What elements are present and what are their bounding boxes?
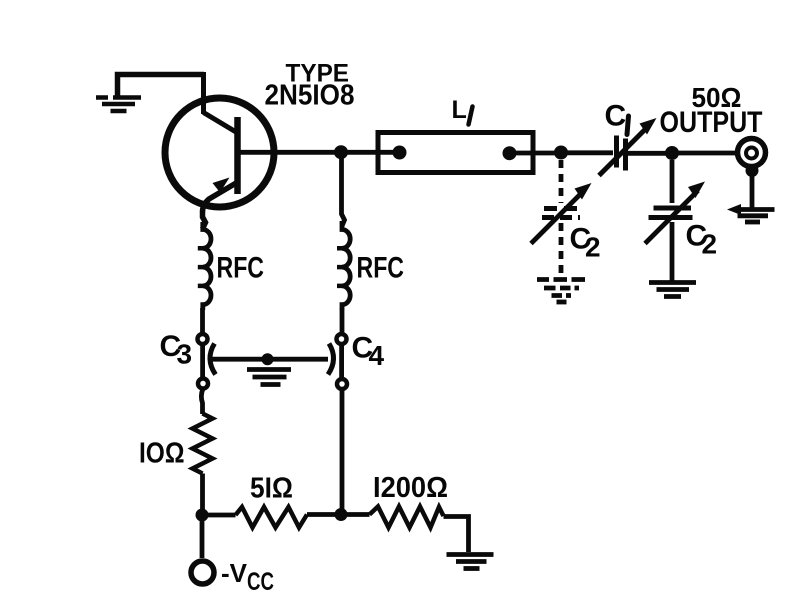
transistor Q1 TYPE 2N5108 — [165, 98, 274, 229]
svg-text:2: 2 — [702, 229, 718, 260]
wire C1 to node N3 — [628, 151, 667, 156]
node ground bus — [262, 353, 274, 365]
svg-text:IOΩ: IOΩ — [139, 438, 185, 470]
ground (C2a, dashed) — [537, 280, 585, 303]
wire C4 down to N5 — [340, 389, 345, 509]
wire ground bus C3 to C4 — [210, 357, 328, 362]
svg-text:L: L — [452, 96, 467, 124]
resistor R1 10 ohm — [193, 414, 213, 474]
node N2 — [554, 146, 568, 160]
svg-text:OUTPUT: OUTPUT — [660, 106, 763, 139]
wire C3 to R1 — [201, 389, 203, 415]
wire R2 to node N5 — [307, 512, 336, 517]
label C3 — [160, 330, 193, 370]
capacitor C4 feedthrough — [328, 334, 347, 389]
label C2a — [570, 223, 601, 263]
svg-text:I200Ω: I200Ω — [373, 472, 448, 504]
inductor L1 — [378, 133, 533, 173]
capacitor C2a variable (phantom, dashed) — [531, 160, 592, 274]
wire base lead — [201, 72, 206, 114]
ground (center bus) — [247, 370, 291, 385]
wire L1 to node N2 — [509, 151, 556, 156]
svg-text:4: 4 — [369, 340, 385, 371]
capacitor C2b variable — [645, 182, 705, 244]
ground (output jack) — [727, 204, 775, 222]
node jack shell — [746, 164, 759, 177]
label 50 ohm OUTPUT — [660, 82, 763, 139]
node N4 — [196, 509, 209, 522]
ground (R3) — [447, 555, 494, 569]
resistor R3 1200 ohm — [370, 507, 444, 528]
svg-text:2: 2 — [585, 232, 601, 263]
label -VCC — [221, 558, 274, 596]
svg-text:-V: -V — [221, 558, 248, 588]
wire junction to L1 — [341, 150, 397, 155]
wire RFC1 to C3 — [200, 308, 205, 334]
inductor RFC1 (emitter choke) — [198, 222, 211, 310]
node N3 — [665, 146, 679, 160]
wire R3 to ground — [444, 517, 469, 553]
wire N4 to VCC terminal — [200, 520, 205, 558]
svg-text:CC: CC — [247, 568, 274, 596]
wire RFC2 to C4 — [340, 308, 345, 334]
label C2b — [686, 220, 718, 260]
label L1 — [452, 96, 473, 125]
svg-text:RFC: RFC — [357, 252, 405, 285]
label C4 — [352, 332, 385, 372]
wire N5 to R3 — [341, 512, 370, 517]
capacitor C3 feedthrough — [198, 334, 216, 389]
svg-text:RFC: RFC — [217, 252, 265, 285]
wire N3 to output jack — [672, 151, 737, 156]
wire N1 down to RFC2 — [342, 158, 345, 226]
label C1 — [605, 100, 629, 135]
ground (C2b) — [649, 283, 696, 297]
inductor RFC2 (collector choke) — [342, 221, 350, 310]
wire jack to ground — [750, 170, 755, 208]
wire N3 to C2b — [670, 160, 675, 203]
resistor R2 51 ohm — [236, 507, 308, 528]
svg-text:C: C — [605, 100, 627, 133]
connector J1 50 ohm output — [738, 139, 766, 167]
node N5 — [335, 508, 348, 521]
label TYPE 2N5108 — [265, 60, 355, 112]
svg-text:3: 3 — [177, 339, 193, 370]
svg-text:5IΩ: 5IΩ — [250, 473, 293, 505]
capacitor C1 variable — [599, 118, 657, 176]
wire collector — [238, 150, 337, 155]
wire N2 to C1 — [561, 150, 613, 155]
node collector junction — [334, 145, 348, 159]
wire base to ground — [118, 75, 205, 97]
connector -VCC terminal — [191, 561, 214, 584]
svg-text:2N5IO8: 2N5IO8 — [265, 80, 355, 112]
ground (base bias) — [96, 98, 141, 112]
wire R1 to node N4 — [200, 474, 205, 511]
wire C2b to ground — [670, 222, 675, 281]
wire N4 to R2 — [208, 513, 236, 518]
